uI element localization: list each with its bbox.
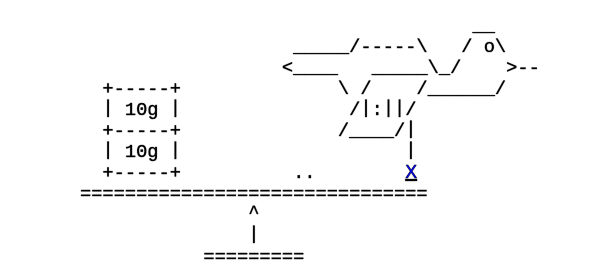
weight W2 label 10g / animal leg [103,139,114,161]
link X [405,162,417,184]
weight W1 label 10g / animal front legs [103,97,114,119]
ascii seesaw scene: two 10g weights vs animal on a plank [80,16,540,268]
fulcrum tip [248,202,259,224]
fulcrum post [248,223,259,245]
